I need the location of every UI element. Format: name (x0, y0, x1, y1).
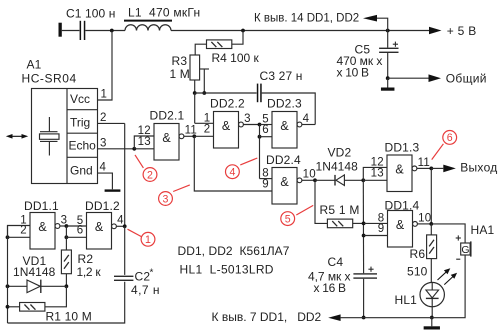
resistor R2 (61, 250, 71, 274)
node X (VD1 anode) (6, 284, 10, 288)
svg-text:DD2.2: DD2.2 (210, 97, 245, 111)
op-amp DD2.3 (NAND gate) (272, 112, 297, 149)
transducer symbol (48, 117, 50, 131)
wire left rail (7, 226, 9, 324)
wire VD1 row (8, 285, 67, 287)
node S (pin2 junction) (6, 235, 10, 239)
buzzer HA1 (461, 243, 470, 255)
wire R2 bottom (65, 274, 67, 287)
red callout 6 (432, 144, 444, 160)
wire pin12 of DD1.3 (363, 167, 387, 180)
node K (DD2.4 out) (313, 178, 317, 182)
svg-text:3: 3 (100, 137, 107, 149)
svg-text:&: & (95, 220, 104, 234)
svg-text:4: 4 (100, 162, 107, 174)
capacitor C1 (80, 21, 82, 40)
svg-text:HL1: HL1 (395, 293, 418, 307)
node H (DD2.1 out) (192, 134, 196, 138)
svg-text:9: 9 (262, 178, 269, 190)
node R (HL1 bottom) (430, 316, 434, 320)
wire HL1 to rail (431, 307, 433, 318)
ground at A1 (105, 189, 121, 191)
wire node B to R4 (232, 31, 243, 45)
svg-text:DD2.1: DD2.1 (150, 108, 185, 122)
module A1 HC-SR04 (32, 89, 98, 184)
svg-text:&: & (280, 175, 289, 189)
wire node K down to R5 (315, 180, 327, 223)
wire output vertical (430, 168, 432, 224)
svg-text:1,2 к: 1,2 к (77, 265, 102, 279)
svg-text:&: & (162, 131, 171, 145)
node U (pin6 junction) (65, 235, 69, 239)
wire R1 right up (45, 286, 67, 307)
wire HA1 to rail (341, 255, 466, 318)
svg-text:R6: R6 (410, 247, 426, 261)
svg-text:6: 6 (262, 124, 269, 136)
red callout 2 (135, 155, 143, 168)
node M (output) (429, 167, 433, 171)
node C (+5V junction) (386, 29, 390, 33)
svg-text:DD1.4: DD1.4 (385, 198, 420, 212)
wire DD1.1 out (60, 225, 67, 227)
wire DD1.2 out (116, 225, 124, 227)
op-amp DD2.1 (NAND gate) (154, 124, 179, 161)
wire R6 to HL1 (430, 259, 432, 283)
node G (echo junction) (132, 147, 136, 151)
svg-text:VD2: VD2 (328, 145, 352, 159)
svg-text:*: * (150, 267, 154, 278)
node P (R6/HA1 junction) (429, 222, 433, 226)
wire pin9 DD1.4 (364, 235, 388, 237)
svg-text:+ 5 В: + 5 В (447, 24, 477, 38)
svg-text:C3 27 н: C3 27 н (260, 69, 303, 83)
wire to VD2 (315, 179, 335, 181)
wire R4 to R3 (195, 44, 206, 55)
svg-text:6: 6 (77, 225, 84, 237)
wire VD2 to node L (344, 179, 363, 181)
node N (pin8 junction) (362, 222, 366, 226)
wire DD1.3 out (417, 167, 431, 169)
red callout 4 (240, 158, 257, 165)
svg-text:C1 100 н: C1 100 н (66, 7, 115, 21)
svg-text:1N4148: 1N4148 (13, 265, 56, 279)
svg-text:C4: C4 (328, 255, 344, 269)
svg-text:13: 13 (138, 136, 151, 148)
svg-text:R4 100 к: R4 100 к (212, 51, 260, 65)
node F (tap junction) (202, 91, 206, 95)
svg-text:G: G (461, 244, 469, 256)
node O (pin9 junction) (362, 234, 366, 238)
node E (R3 bottom) (193, 91, 197, 95)
wire pin8 (260, 178, 273, 180)
svg-text:6: 6 (447, 132, 453, 144)
svg-text:Общий: Общий (446, 71, 487, 85)
svg-text:13: 13 (371, 168, 384, 180)
svg-text:Echo: Echo (69, 139, 97, 153)
wire C4 to rail (363, 279, 365, 318)
svg-text:510: 510 (407, 264, 428, 278)
capacitor C2 (114, 276, 133, 277)
node W (VD1 cathode) (65, 284, 69, 288)
wire P to HA1 (431, 224, 465, 243)
resistor R4 (207, 40, 232, 49)
svg-text:DD1.1: DD1.1 (24, 199, 59, 213)
wire node H to pin2 (194, 135, 213, 137)
ultrasound arrow (9, 135, 26, 137)
A1 cell line 1 (67, 109, 98, 111)
svg-text:DD2.3: DD2.3 (267, 97, 302, 111)
wire pin8 DD1.4 (364, 222, 388, 224)
wire DD2.4 out (302, 179, 315, 181)
LED HL1 (420, 282, 444, 306)
svg-text:3: 3 (163, 193, 169, 205)
wire Trig vertical (124, 123, 126, 226)
node V (osc out) (123, 224, 127, 228)
svg-text:К выв. 14 DD1, DD2: К выв. 14 DD1, DD2 (254, 12, 359, 24)
op-amp DD1.2 (NAND gate) (87, 213, 112, 250)
svg-text:R5 1 M: R5 1 M (320, 203, 360, 217)
wire R1 left (8, 306, 20, 308)
wire +5V rail (171, 30, 429, 32)
svg-text:&: & (396, 218, 405, 232)
node Y (R1 left) (6, 305, 10, 309)
resistor R1 (20, 303, 45, 312)
pin 2 Trig wire (98, 122, 125, 124)
svg-text:&: & (38, 220, 47, 234)
wire DD2.3 out (302, 124, 315, 126)
arrow Obshchiy (429, 74, 442, 82)
op-amp DD2.2 (NAND gate) (214, 112, 239, 149)
red callout 5 (296, 205, 313, 215)
svg-text:Vcc: Vcc (70, 92, 90, 106)
svg-text:A1: A1 (27, 57, 42, 71)
svg-text:C2: C2 (135, 270, 151, 284)
wire node L down (362, 180, 364, 273)
wire C2 bottom to loop (8, 282, 125, 323)
resistor R5 (327, 219, 352, 228)
svg-text:5: 5 (285, 213, 291, 225)
svg-text:К выв. 7 DD1, DD2: К выв. 7 DD1, DD2 (212, 310, 322, 324)
svg-text:&: & (280, 119, 289, 133)
svg-text:9: 9 (378, 223, 385, 235)
wire DD2.1 out (184, 135, 194, 137)
capacitor C4 (353, 273, 377, 274)
pin 3 Echo wire (98, 148, 135, 150)
svg-text:2: 2 (204, 124, 211, 136)
svg-text:10: 10 (418, 212, 431, 224)
svg-text:4: 4 (229, 167, 235, 179)
svg-text:2: 2 (20, 225, 27, 237)
arrow +5 B (429, 27, 442, 35)
svg-text:2: 2 (147, 169, 153, 181)
svg-text:4,7 н: 4,7 н (131, 283, 160, 297)
svg-text:HL1 L-5013LRD: HL1 L-5013LRD (180, 262, 274, 276)
node A (Vcc tap) (110, 29, 114, 33)
wire pin1 DD1.1 (8, 226, 31, 238)
wire node E to pin1 (194, 93, 196, 123)
node J (pin6 junction) (258, 135, 262, 139)
op-amp DD1.3 (NAND gate) (387, 155, 412, 192)
wire to DD2.1 inputs (134, 136, 154, 149)
svg-text:&: & (222, 119, 231, 133)
terminal X1 (input pad) (59, 23, 62, 37)
wire DD2.1-out down to pin9 (194, 136, 272, 191)
op-amp DD1.1 (NAND gate) (30, 213, 55, 250)
svg-text:DD1.3: DD1.3 (385, 140, 420, 154)
svg-text:4: 4 (117, 215, 124, 227)
A1 cell line 3 (67, 156, 98, 158)
wire pin13 of DD1.3 (363, 179, 387, 181)
wire DD1.4 out (417, 223, 431, 225)
svg-text:R1 10 M: R1 10 M (46, 309, 92, 323)
wire C5 top (387, 31, 389, 48)
svg-text:HA1: HA1 (471, 223, 495, 237)
pin 4 Gnd wire (98, 173, 113, 189)
wire DD2.2 out (243, 124, 259, 126)
capacitor C5 (379, 48, 398, 49)
ground near C5 (387, 78, 389, 87)
svg-text:DD1, DD2 К561ЛА7: DD1, DD2 К561ЛА7 (178, 244, 290, 258)
svg-text:Gnd: Gnd (70, 164, 93, 178)
wire vertical pins 5-6-8 (259, 125, 261, 179)
svg-text:2: 2 (100, 112, 107, 124)
wire C2 vertical top (124, 226, 126, 275)
svg-text:3: 3 (244, 113, 251, 125)
svg-text:12: 12 (138, 125, 151, 137)
op-amp DD2.4 (NAND gate) (272, 168, 297, 205)
svg-text:х 16 В: х 16 В (314, 281, 347, 295)
wire C1 to L1 (85, 30, 125, 32)
svg-text:1: 1 (145, 234, 151, 246)
arrow to label K vyv14 (363, 15, 377, 22)
wire C3 to DD2.3 out (262, 93, 316, 125)
arrow Vykhod (431, 167, 443, 169)
svg-text:х 10 В: х 10 В (337, 65, 370, 79)
wire pins 5-6 (66, 225, 86, 227)
svg-text:DD2.4: DD2.4 (266, 153, 301, 167)
pin 1 Vcc wire (98, 31, 113, 101)
node T (DD1.1 out) (65, 224, 69, 228)
node L (DD1.3 in) (361, 178, 365, 182)
resistor R6 (427, 235, 437, 259)
A1 pin column divider (66, 89, 68, 184)
svg-text:Выход: Выход (460, 160, 497, 174)
A1 cell line 2 (67, 132, 98, 134)
svg-text:DD1.2: DD1.2 (85, 199, 120, 213)
svg-text:11: 11 (418, 157, 431, 169)
svg-text:12: 12 (371, 156, 384, 168)
wire terminal to C1 (62, 30, 80, 32)
diode VD2 (334, 175, 336, 186)
node D (common) (386, 76, 390, 80)
node I (pin5 junction) (258, 123, 262, 127)
node Q (C4 bottom) (362, 316, 366, 320)
arrow K vyv.7 (328, 314, 340, 321)
svg-text:&: & (395, 163, 404, 177)
wire pin2 DD1.1 (8, 236, 31, 238)
svg-text:4: 4 (303, 113, 310, 125)
inductor L1 (125, 25, 137, 31)
red callout 1 (128, 229, 142, 236)
capacitor C3 (257, 84, 259, 103)
wire to obshchiy arrow (388, 77, 429, 79)
wire pin6 (260, 136, 273, 138)
svg-text:1 М: 1 М (170, 67, 190, 81)
trimmer tap of R3 (200, 68, 209, 70)
resistor R3 (preset) (190, 55, 200, 80)
svg-text:1: 1 (101, 89, 108, 101)
svg-text:L1 470 мкГн: L1 470 мкГн (128, 5, 200, 19)
svg-text:Trig: Trig (70, 116, 90, 130)
svg-text:HC-SR04: HC-SR04 (22, 71, 77, 85)
red callout 3 (173, 185, 190, 192)
ground at HL1 (431, 318, 433, 327)
LED arrows (438, 270, 449, 280)
wire C5 bottom (387, 53, 389, 78)
wire R3 bottom (194, 80, 196, 93)
wire P to R6 (430, 224, 432, 235)
wire pin5 (260, 124, 273, 126)
svg-text:1: 1 (204, 112, 211, 124)
wire R5 to node N (353, 222, 364, 224)
diode VD1 (27, 280, 40, 293)
svg-text:1N4148: 1N4148 (316, 160, 359, 174)
node B (R4 tap) (241, 29, 245, 33)
wire feedback to C3 (195, 92, 257, 94)
op-amp DD1.4 (NAND gate) (388, 211, 413, 248)
